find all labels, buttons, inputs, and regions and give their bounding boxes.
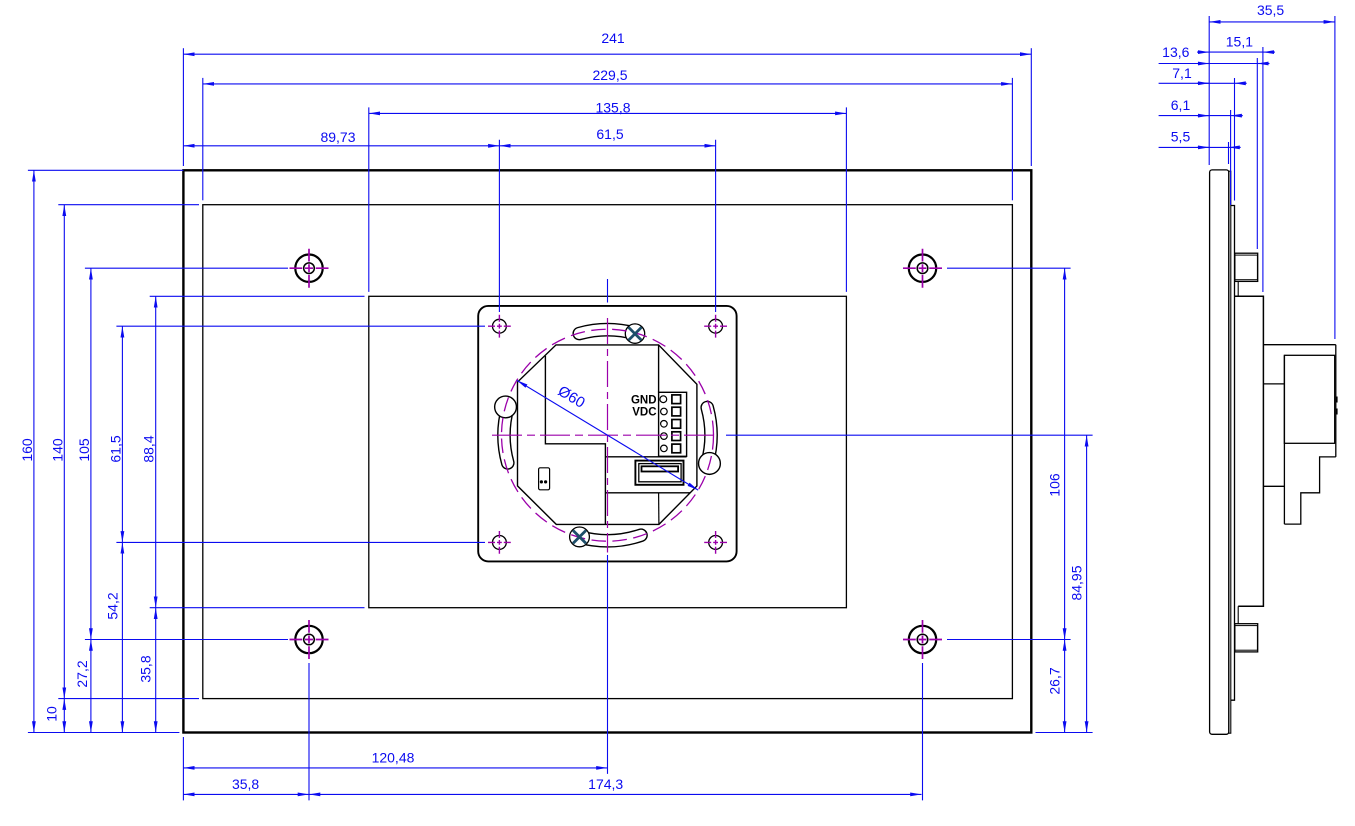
svg-text:105: 105 <box>76 438 92 462</box>
svg-text:35,5: 35,5 <box>1257 2 1284 18</box>
dim 106 line <box>1064 268 1066 639</box>
witness top x1012 <box>1011 78 1013 200</box>
dim 15,1 arrow left <box>1197 51 1209 53</box>
plate hole bottom-right <box>709 536 723 550</box>
witness top x499 <box>498 140 500 312</box>
side clip upper link <box>1237 281 1239 296</box>
svg-text:84,95: 84,95 <box>1069 565 1085 600</box>
side chassis right edge <box>1335 345 1337 457</box>
side clip upper inner <box>1235 255 1258 280</box>
crosshair panel hole bottom-right <box>903 620 942 659</box>
witness above cup x607 <box>607 279 609 303</box>
witness right y268 <box>947 267 1071 269</box>
witness bottom x183 <box>182 737 184 800</box>
side module box <box>1235 296 1264 606</box>
dim 174,3 line <box>309 793 922 795</box>
dim 7,1 arrow left <box>1197 82 1209 84</box>
witness baseline left y733 <box>28 732 180 734</box>
dim 35,8 left line <box>155 608 157 733</box>
witness bottom x309 <box>308 663 310 800</box>
witness baseline right y733 <box>1036 732 1093 734</box>
dim 15,1 arrow right <box>1263 51 1275 53</box>
connector outer <box>635 461 683 485</box>
side chassis divider upper <box>1263 383 1284 385</box>
D60 leader line <box>517 380 698 490</box>
dim 5,5 arrow right <box>1229 146 1241 148</box>
side bezel <box>1210 170 1229 734</box>
side witness x1335 <box>1334 16 1336 339</box>
screw top cross <box>629 327 642 340</box>
dim 241 line <box>183 53 1031 55</box>
svg-text:241: 241 <box>601 30 625 46</box>
cup inner vertical lower <box>658 493 660 525</box>
screw bottom cross <box>573 530 586 543</box>
crosshair plate hole top-right <box>704 315 727 338</box>
plate hole top-left <box>493 319 507 333</box>
dim 229,5 line <box>203 83 1013 85</box>
slot bulb left <box>495 396 517 418</box>
witness top x846 <box>845 107 847 292</box>
side glass plate <box>1229 171 1231 733</box>
dim 35,8 bottom line <box>183 793 309 795</box>
dim 26,7 line <box>1064 640 1066 733</box>
cup centerline horizontal <box>492 434 719 436</box>
plate hole top-right <box>709 319 723 333</box>
plate hole bottom-left <box>493 536 507 550</box>
svg-text:7,1: 7,1 <box>1172 65 1192 81</box>
slot arc right <box>707 408 711 463</box>
panel hole top-left <box>295 255 322 282</box>
dim 15,1 line <box>1209 51 1263 53</box>
side chassis step1 <box>1284 457 1335 524</box>
side witness x1228 <box>1228 142 1230 164</box>
side chassis inner vertical <box>1283 355 1285 524</box>
dim 6,1 arrow left <box>1197 115 1209 117</box>
dim 54,2 line <box>121 542 123 732</box>
side clip lower outer <box>1235 624 1258 652</box>
witness left y170 <box>28 169 184 171</box>
dim 7,1 arrow right <box>1235 82 1247 84</box>
cup inner horizontal lower <box>605 492 690 494</box>
svg-text:135,8: 135,8 <box>595 100 630 116</box>
side witness x1209 <box>1208 16 1210 165</box>
crosshair plate hole bottom-right <box>704 531 727 554</box>
slot arc bottom <box>579 535 641 540</box>
witness top x183 <box>182 48 184 166</box>
component dots <box>540 480 543 483</box>
dim 7,1 line <box>1159 82 1235 84</box>
mounting plate <box>478 306 736 562</box>
side clip upper outer <box>1235 253 1258 281</box>
svg-text:27,2: 27,2 <box>74 660 90 687</box>
witness left y542 <box>116 541 485 543</box>
svg-text:6,1: 6,1 <box>1171 97 1191 113</box>
panel inner rectangle <box>203 205 1013 699</box>
svg-text:10: 10 <box>43 706 59 722</box>
svg-text:120,48: 120,48 <box>372 749 415 765</box>
svg-text:106: 106 <box>1047 473 1063 497</box>
dim 13,6 line <box>1159 63 1258 65</box>
crosshair plate hole top-left <box>488 315 511 338</box>
panel outer rectangle <box>183 170 1031 732</box>
witness top x369 <box>368 107 370 292</box>
dim 135,8 line <box>369 112 847 114</box>
side witness x1234 <box>1234 78 1236 201</box>
side frame layer <box>1231 206 1235 701</box>
slot bulb right <box>699 453 721 475</box>
svg-text:VDC: VDC <box>632 407 656 419</box>
side clip lower link <box>1237 606 1239 623</box>
side chassis right ticks <box>1336 397 1338 415</box>
connector slot <box>642 466 679 471</box>
cup centerline vertical <box>607 318 609 553</box>
dim 105 line <box>90 268 92 639</box>
witness left y205 <box>58 204 199 206</box>
dim 160 line <box>33 170 35 732</box>
slot arc top <box>579 330 635 334</box>
side witness x1257 <box>1256 58 1258 249</box>
side witness x1263 <box>1262 47 1264 292</box>
svg-text:5,5: 5,5 <box>1171 128 1191 144</box>
dim 88,4 line <box>155 296 157 607</box>
svg-text:140: 140 <box>49 438 65 462</box>
side chassis top <box>1263 344 1335 346</box>
small component box <box>539 468 550 490</box>
witness bottom x922 <box>922 663 924 800</box>
witness left y699 <box>58 698 199 700</box>
witness right y435 <box>726 434 1093 436</box>
connector inner <box>639 464 681 482</box>
witness left y608 <box>150 607 365 609</box>
terminal block <box>659 392 687 456</box>
witness left y296 <box>150 295 365 297</box>
svg-text:88,4: 88,4 <box>141 435 157 462</box>
cup inner step left <box>545 356 605 525</box>
mounting cup octagon <box>518 345 697 525</box>
svg-text:26,7: 26,7 <box>1047 667 1063 694</box>
dim 13,6 arrow right <box>1257 63 1269 65</box>
dim 6,1 arrow right <box>1231 115 1243 117</box>
witness left y326 <box>116 325 485 327</box>
crosshair panel hole top-left <box>290 249 329 288</box>
svg-text:35,8: 35,8 <box>232 776 259 792</box>
dim 120,48 line <box>183 767 607 769</box>
panel hole bottom-right <box>909 626 936 653</box>
dim 5,5 arrow left <box>1197 146 1209 148</box>
screw top circle <box>625 324 644 343</box>
dashed circle D60 <box>502 329 714 541</box>
svg-text:89,73: 89,73 <box>320 129 355 145</box>
side witness x1231 <box>1230 110 1232 205</box>
svg-text:229,5: 229,5 <box>592 67 627 83</box>
display mid rectangle <box>369 296 847 607</box>
dim 6,1 line <box>1159 115 1231 117</box>
dim 13,6 arrow left <box>1197 63 1209 65</box>
dim 84,95 line <box>1086 435 1088 732</box>
witness top x716 <box>715 140 717 312</box>
svg-text:GND: GND <box>631 394 657 406</box>
screw bottom circle <box>570 527 590 547</box>
side clip lower inner <box>1235 626 1258 651</box>
dim 10 line <box>63 699 65 733</box>
crosshair plate hole bottom-left <box>488 531 511 554</box>
svg-text:54,2: 54,2 <box>104 592 120 619</box>
svg-text:61,5: 61,5 <box>107 435 123 462</box>
svg-text:13,6: 13,6 <box>1162 44 1189 60</box>
svg-text:35,8: 35,8 <box>138 655 154 682</box>
cup inner horizontal under block <box>605 456 686 458</box>
crosshair panel hole bottom-left <box>290 620 329 659</box>
dim 140 line <box>63 205 65 699</box>
terminal squares column <box>672 395 681 453</box>
svg-text:174,3: 174,3 <box>588 776 623 792</box>
panel hole bottom-left <box>295 626 322 653</box>
witness left y268 <box>85 267 288 269</box>
dim 61,5 left line <box>121 326 123 542</box>
witness right y640 <box>947 639 1071 641</box>
dim 27,2 line <box>90 640 92 733</box>
svg-text:61,5: 61,5 <box>596 126 623 142</box>
dim 35,5 line <box>1209 21 1335 23</box>
witness left y640 <box>85 639 288 641</box>
dim 61,5 top line <box>499 145 715 147</box>
crosshair panel hole top-right <box>903 249 942 288</box>
svg-text:160: 160 <box>19 438 35 462</box>
terminal circles column <box>660 396 667 452</box>
dim 5,5 line <box>1159 146 1229 148</box>
panel hole top-right <box>909 255 936 282</box>
witness top x1031 <box>1030 48 1032 166</box>
slot arc left <box>504 408 508 463</box>
witness bottom center x607 <box>607 555 609 774</box>
svg-text:15,1: 15,1 <box>1226 34 1253 50</box>
dim 89,73 line <box>183 145 499 147</box>
side chassis divider lower <box>1263 485 1284 487</box>
cup inner vertical right <box>658 345 660 392</box>
witness top x203 <box>202 78 204 200</box>
side chassis inner box <box>1284 355 1334 443</box>
